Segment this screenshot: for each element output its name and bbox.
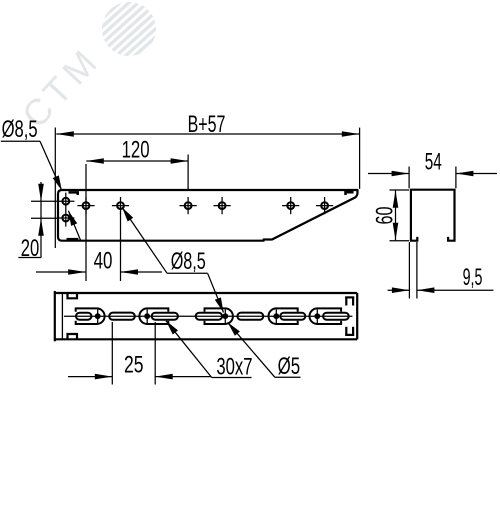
- hole row 2: [112, 197, 129, 214]
- slot lone 2: [237, 313, 263, 320]
- notch top-left: [68, 294, 78, 299]
- keyhole group 5 slot: [323, 313, 349, 320]
- tab top-right: [346, 192, 354, 195]
- svg-text:B+57: B+57: [188, 111, 226, 138]
- hole row 5: [282, 197, 299, 214]
- dim 54: [368, 167, 497, 189]
- svg-text:30x7: 30x7: [216, 353, 252, 380]
- svg-text:9,5: 9,5: [463, 264, 483, 291]
- svg-text:40: 40: [94, 248, 113, 275]
- keyhole group 1 hole: [95, 313, 101, 319]
- watermark striped globe: [86, 0, 168, 69]
- dim 120: [86, 155, 188, 282]
- svg-text:Ø8,5: Ø8,5: [171, 248, 206, 275]
- hole row 3: [180, 197, 197, 214]
- slot mark top-right: [345, 297, 354, 306]
- dim 9,5: [388, 242, 494, 299]
- slot mark bottom-right: [345, 327, 354, 336]
- keyhole group 2 hole: [144, 313, 150, 319]
- keyhole group 4 outer: [268, 308, 297, 324]
- svg-text:54: 54: [425, 149, 442, 176]
- keyhole group 4 hole: [273, 313, 279, 319]
- dim 60: [390, 190, 410, 241]
- svg-text:20: 20: [21, 235, 40, 262]
- keyhole group 4 slot: [280, 313, 305, 320]
- keyhole group 3 hole: [222, 313, 228, 319]
- channel section outline: [411, 190, 455, 241]
- keyhole group 3 outer: [205, 308, 233, 324]
- svg-text:120: 120: [122, 137, 150, 164]
- keyhole group 1 slot: [76, 313, 91, 320]
- bracket side view outline: [58, 190, 358, 241]
- tab bottom-left: [67, 238, 79, 241]
- hole row 4: [214, 197, 231, 214]
- svg-text:Ø8,5: Ø8,5: [2, 116, 38, 143]
- dim 25: [68, 322, 211, 385]
- hole row 1: [77, 197, 94, 214]
- hole B left bottom: [57, 209, 74, 226]
- notch bottom-left: [68, 334, 78, 339]
- keyhole group 5 outer: [310, 308, 342, 324]
- svg-text:Ø5: Ø5: [278, 353, 301, 380]
- keyhole group 3 slot: [196, 313, 222, 320]
- svg-text:25: 25: [124, 351, 144, 378]
- hole row 6: [316, 197, 333, 214]
- keyhole group 2 outer: [139, 308, 168, 324]
- svg-text:60: 60: [372, 207, 399, 225]
- slot lone 1: [109, 313, 135, 320]
- dim B+57: [55, 128, 359, 249]
- tab top-left: [69, 192, 78, 195]
- dim 40: [36, 213, 162, 281]
- rail inner left line: [61, 293, 63, 339]
- leader to hole B: [68, 211, 80, 241]
- rail center line: [64, 315, 352, 317]
- keyhole group 1 outer: [76, 308, 105, 324]
- hole A left top: [57, 193, 74, 210]
- dim 20: [18, 182, 58, 258]
- rail plan outline: [55, 291, 357, 341]
- keyhole group 2 slot: [152, 313, 178, 320]
- watermark STM logo text: [14, 38, 109, 135]
- keyhole group 5 hole: [314, 313, 320, 319]
